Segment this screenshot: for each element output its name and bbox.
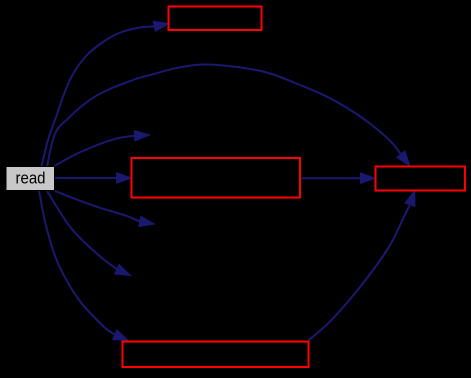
svg-text:read: read	[16, 168, 46, 187]
edge read -> hidden node A	[55, 131, 150, 166]
edge bottom box -> right box	[309, 191, 415, 341]
node: middle red box	[132, 158, 301, 198]
node: read (grey root node)	[6, 167, 55, 191]
edge read -> hidden node B	[55, 191, 155, 227]
node: top red box	[169, 7, 262, 31]
node: bottom red box	[123, 342, 309, 368]
edge read -> top box	[42, 21, 170, 166]
edge read -> hidden node C	[47, 191, 131, 276]
node: right red box	[376, 167, 466, 191]
edge read -> bottom box	[39, 191, 129, 341]
edge middle box -> right box	[302, 173, 376, 184]
edge read -> middle box	[55, 173, 132, 184]
edge read -> right box (over the top)	[47, 64, 410, 166]
